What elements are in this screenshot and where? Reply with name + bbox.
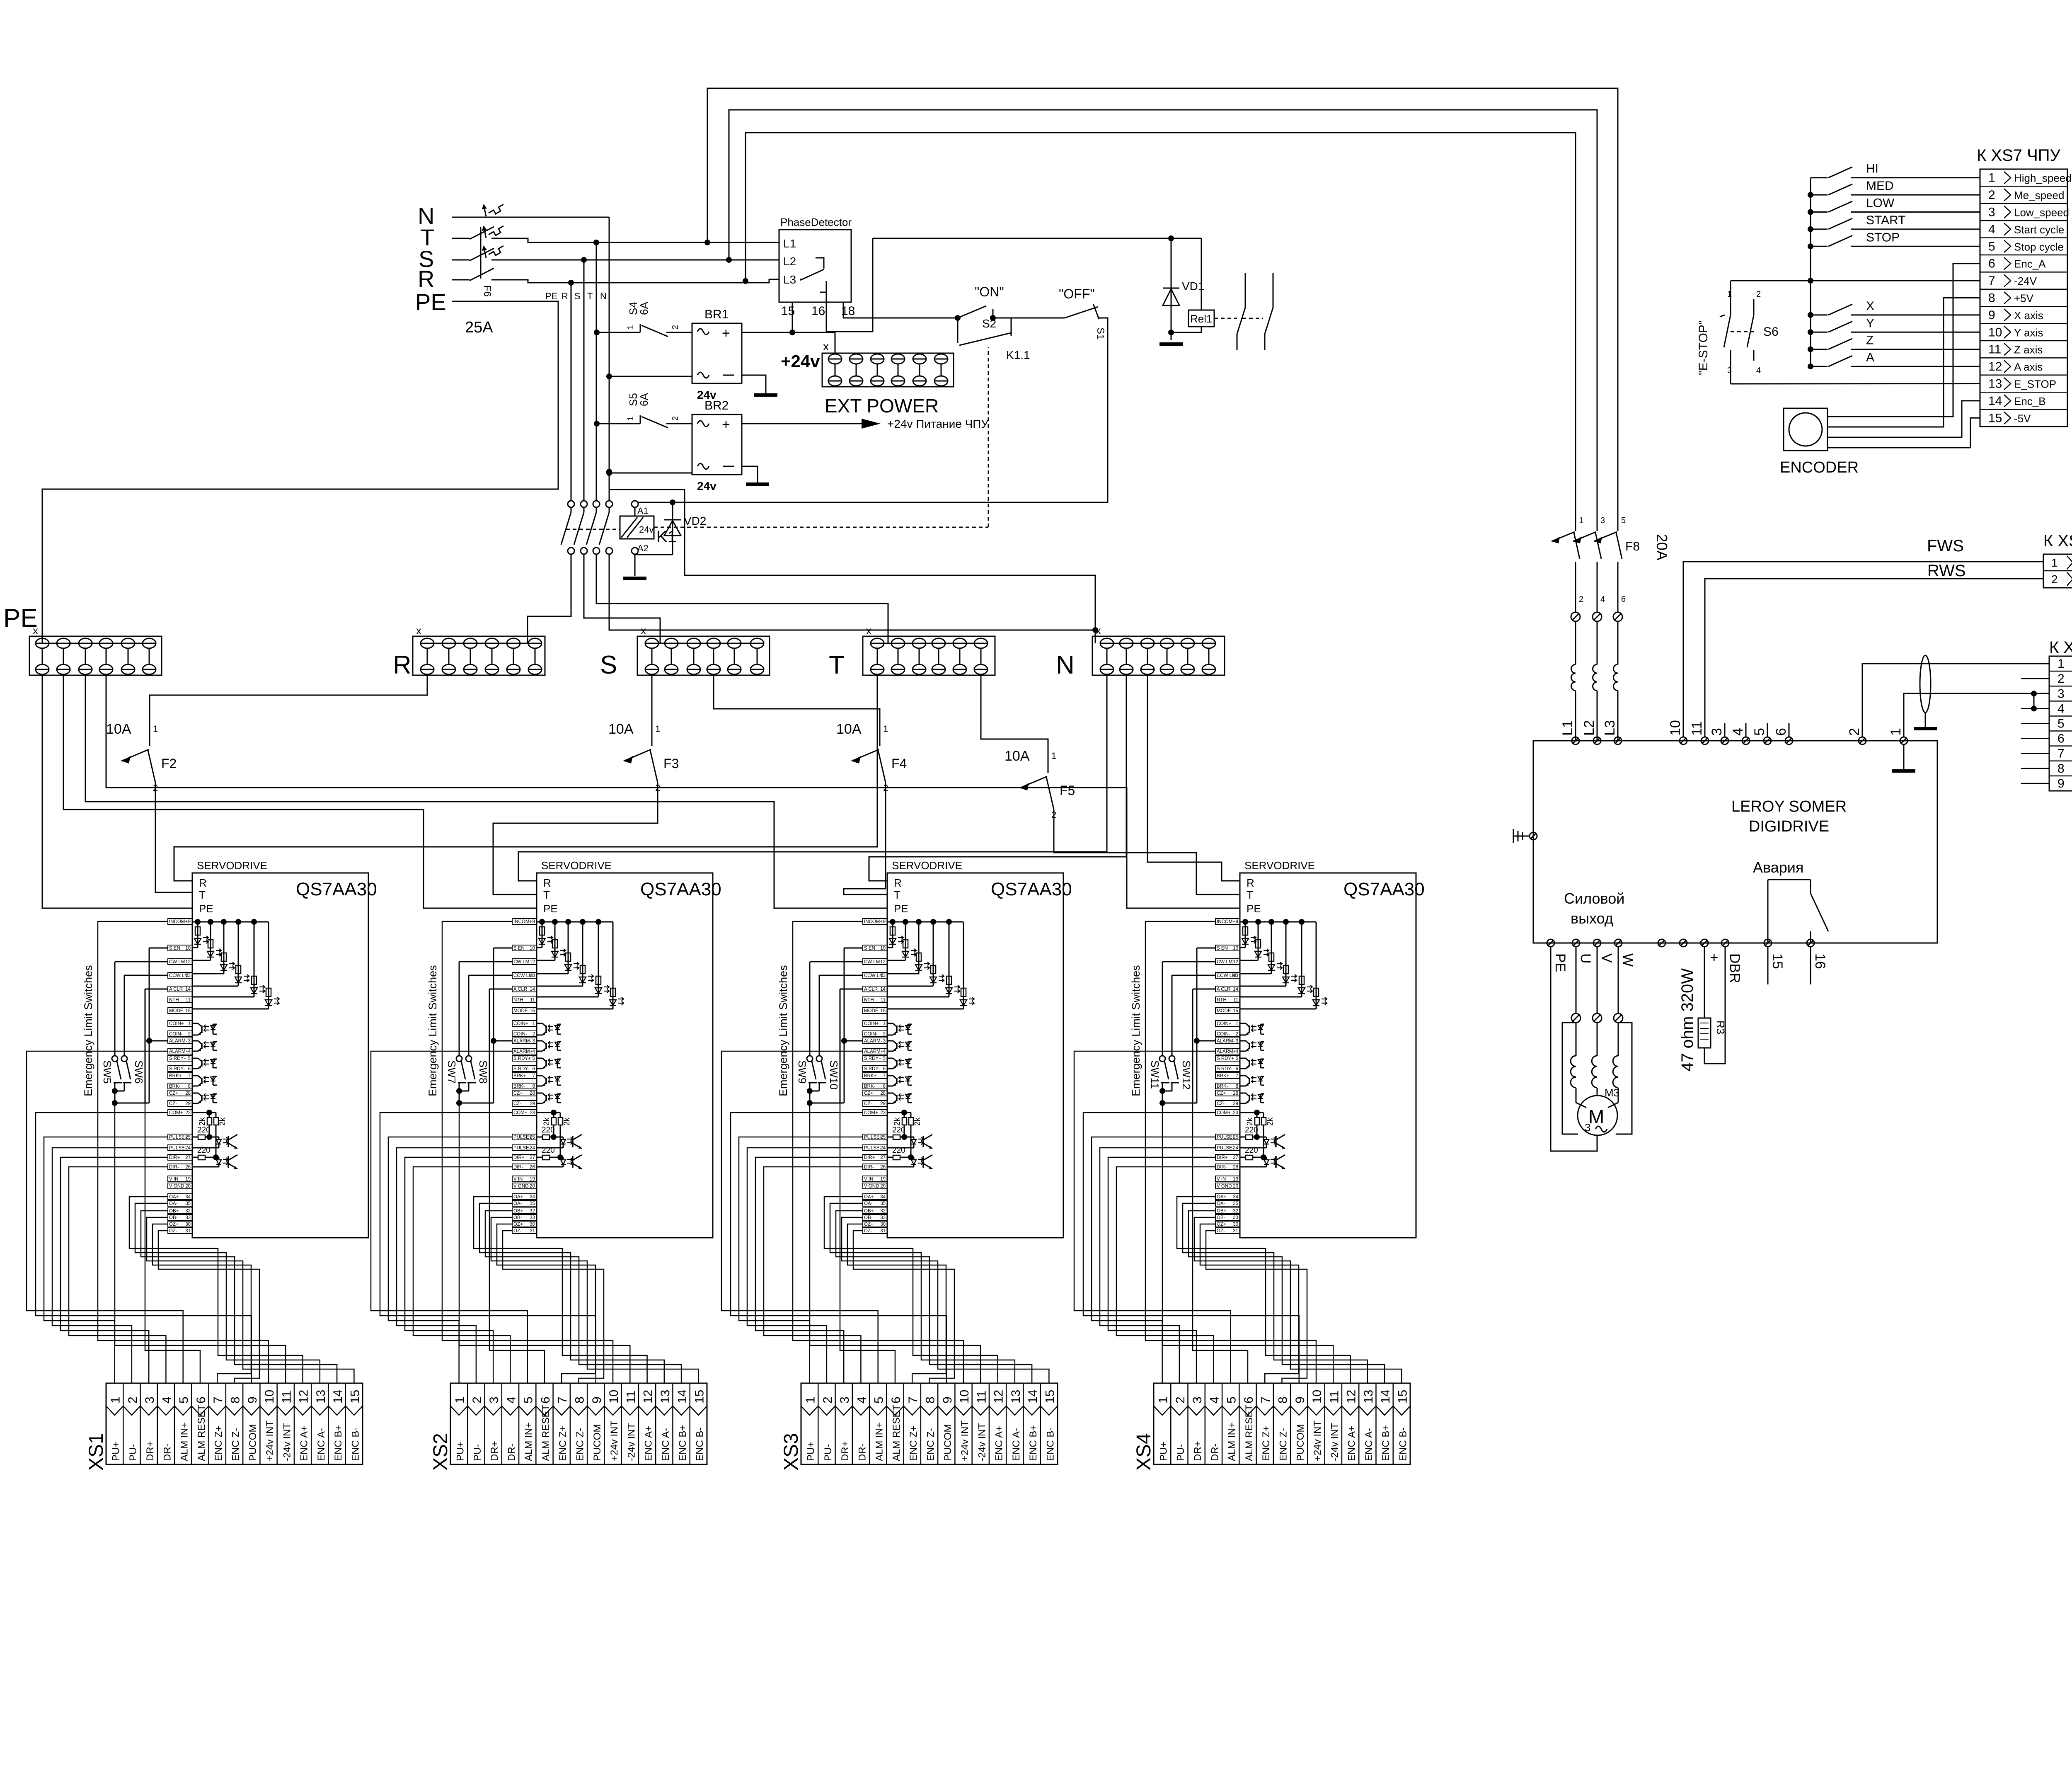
wire V to motor terminal — [1597, 947, 1598, 1013]
wire T strip to servodrive1 R — [174, 675, 877, 881]
block PhaseDetector — [779, 230, 851, 302]
svg-text:34: 34 — [530, 1195, 535, 1200]
svg-text:U: U — [1578, 953, 1593, 964]
svg-text:10A: 10A — [1005, 748, 1030, 764]
svg-text:COIN-: COIN- — [1217, 1032, 1230, 1037]
svg-text:15: 15 — [1043, 1390, 1057, 1404]
svg-text:220: 220 — [892, 1146, 905, 1155]
limit switch SW8 — [469, 975, 512, 976]
svg-text:COM+: COM+ — [169, 1110, 183, 1115]
svg-text:2: 2 — [126, 1396, 140, 1404]
servodrive U1 pulse dir interface — [192, 1110, 237, 1169]
svg-text:V GND: V GND — [1217, 1184, 1232, 1189]
svg-text:S RDY+: S RDY+ — [1217, 1056, 1234, 1061]
wire F3 to servodrive2 T — [493, 783, 658, 894]
svg-text:DIR-: DIR- — [864, 1165, 874, 1170]
svg-text:10: 10 — [1988, 325, 2002, 339]
svg-text:33: 33 — [1233, 1215, 1238, 1220]
svg-text:ENC A+: ENC A+ — [299, 1425, 310, 1461]
svg-text:S RDY+: S RDY+ — [513, 1056, 531, 1061]
drive bottom terminals — [1547, 939, 1828, 983]
svg-text:1: 1 — [1727, 290, 1732, 299]
svg-text:SW10: SW10 — [828, 1060, 840, 1090]
svg-text:27: 27 — [880, 1155, 886, 1160]
svg-text:2k: 2k — [563, 1117, 571, 1126]
svg-text:34: 34 — [185, 1195, 191, 1200]
svg-text:5: 5 — [1988, 240, 1995, 253]
svg-text:-24v INT: -24v INT — [281, 1423, 293, 1461]
svg-text:2k: 2k — [542, 1117, 551, 1126]
svg-text:PU+: PU+ — [455, 1442, 466, 1461]
servodrive U4 QS7AA30 block — [1240, 873, 1416, 1238]
svg-text:14: 14 — [331, 1390, 345, 1404]
svg-text:220: 220 — [892, 1126, 905, 1134]
svg-text:4: 4 — [1236, 1049, 1239, 1054]
svg-text:25: 25 — [185, 1135, 191, 1140]
svg-text:1: 1 — [533, 1021, 535, 1026]
wire control top rail — [873, 238, 1201, 239]
svg-text:CW LM: CW LM — [169, 960, 185, 965]
svg-text:10A: 10A — [106, 721, 131, 737]
svg-text:STOP: STOP — [1866, 230, 1900, 244]
svg-text:SERVODRIVE: SERVODRIVE — [197, 859, 267, 872]
svg-text:PE: PE — [1552, 953, 1568, 972]
svg-text:1: 1 — [804, 1396, 818, 1404]
svg-text:ENC Z+: ENC Z+ — [213, 1425, 224, 1461]
wire top rail L2 to F8 — [729, 110, 1597, 516]
wire fan servodrive to XS1 — [27, 921, 354, 1383]
limit switch SW11 — [1162, 961, 1215, 962]
svg-text:DR-: DR- — [1209, 1443, 1220, 1461]
svg-text:V IN: V IN — [513, 1177, 523, 1182]
svg-text:OB-: OB- — [1217, 1215, 1225, 1220]
svg-text:19: 19 — [185, 1177, 191, 1182]
svg-text:2k: 2k — [218, 1117, 227, 1126]
svg-text:10: 10 — [185, 946, 191, 951]
svg-text:BRK+: BRK+ — [864, 1074, 877, 1079]
switch bank bus — [1810, 178, 1811, 366]
wire R phase to PhaseDetector L3 — [491, 279, 779, 283]
svg-text:19: 19 — [1233, 1177, 1238, 1182]
svg-text:20: 20 — [530, 1184, 535, 1189]
servodrive U1 QS7AA30 block — [192, 873, 368, 1238]
svg-text:COIN+: COIN+ — [513, 1021, 528, 1026]
ground BR1 — [754, 393, 777, 397]
svg-text:15: 15 — [1988, 411, 2002, 425]
svg-text:2: 2 — [188, 1032, 191, 1037]
svg-text:10: 10 — [958, 1390, 971, 1404]
svg-text:7: 7 — [883, 1074, 886, 1079]
svg-text:"E-STOP": "E-STOP" — [1697, 320, 1710, 375]
svg-text:OB+: OB+ — [1217, 1209, 1227, 1214]
switch START — [1808, 226, 1813, 232]
contact K1.1 parallel — [957, 318, 959, 343]
svg-text:T: T — [829, 651, 845, 679]
svg-text:33: 33 — [530, 1215, 535, 1220]
svg-text:x: x — [823, 340, 829, 353]
svg-text:13: 13 — [658, 1390, 672, 1404]
svg-text:CW LM: CW LM — [864, 960, 880, 965]
connector XS3 — [780, 1383, 1058, 1471]
svg-text:+24v Питание ЧПУ: +24v Питание ЧПУ — [887, 417, 988, 430]
svg-text:7: 7 — [211, 1396, 225, 1404]
svg-text:"ON": "ON" — [975, 284, 1004, 299]
svg-text:W: W — [1620, 953, 1636, 967]
contactor K1 gang dashed — [566, 529, 620, 530]
svg-text:6: 6 — [1621, 595, 1626, 604]
svg-text:BRK+: BRK+ — [1217, 1074, 1230, 1079]
svg-text:15: 15 — [880, 1008, 886, 1013]
svg-text:DIR+: DIR+ — [864, 1155, 875, 1160]
svg-text:V IN: V IN — [864, 1177, 873, 1182]
svg-text:2k: 2k — [893, 1117, 902, 1126]
svg-text:31: 31 — [185, 1229, 191, 1234]
svg-text:Start cycle: Start cycle — [2014, 223, 2064, 236]
svg-text:28: 28 — [185, 1091, 191, 1096]
svg-text:Enc_A: Enc_A — [2014, 258, 2046, 270]
svg-text:ALM RESET: ALM RESET — [540, 1405, 552, 1461]
svg-text:5: 5 — [533, 1056, 535, 1061]
wire N phase — [452, 217, 609, 218]
svg-text:3: 3 — [1236, 1039, 1238, 1044]
svg-text:ENC A-: ENC A- — [1363, 1428, 1375, 1461]
svg-text:Me_speed: Me_speed — [2014, 189, 2064, 201]
wire U to motor terminal — [1576, 947, 1577, 1013]
wire pin16 to top rail — [826, 238, 873, 332]
wire S2 to S1 — [993, 318, 1065, 319]
svg-text:12: 12 — [1345, 1390, 1358, 1404]
servodrive U1 output optocouplers — [192, 1023, 217, 1103]
drive LEROY SOMER DIGIDRIVE block — [1533, 741, 1937, 943]
wire encoder 5V — [1828, 298, 1980, 427]
servodrive U2 terminal boxes — [512, 919, 537, 1234]
wire S bus to S strip — [584, 554, 660, 643]
wire S phase into breaker — [452, 259, 470, 261]
svg-text:6: 6 — [1773, 728, 1789, 736]
svg-text:Enc_B: Enc_B — [2014, 395, 2046, 407]
svg-text:6: 6 — [883, 1067, 886, 1071]
svg-text:INCOM+: INCOM+ — [864, 919, 883, 924]
svg-text:S: S — [600, 651, 617, 679]
wires windings to motor — [1576, 1088, 1577, 1103]
line reactor L3 — [1614, 664, 1618, 691]
svg-text:R: R — [199, 877, 207, 889]
svg-text:13: 13 — [314, 1390, 328, 1404]
svg-text:L2: L2 — [783, 255, 796, 268]
ground VD1 — [1159, 342, 1183, 346]
wire RWS to XS6 pin2 — [1705, 579, 2043, 737]
svg-text:5: 5 — [883, 1056, 886, 1061]
wire N bus to N strip — [609, 554, 1095, 630]
ground K1 coil — [623, 577, 646, 580]
svg-text:DR+: DR+ — [1192, 1441, 1203, 1461]
wire S5 to BR2 — [666, 423, 692, 424]
svg-text:31: 31 — [1233, 1229, 1238, 1234]
wire top rail L3 to F8 — [707, 88, 1618, 516]
svg-text:CZ+: CZ+ — [169, 1091, 178, 1096]
svg-text:S RDY+: S RDY+ — [169, 1056, 186, 1061]
svg-text:14: 14 — [1233, 987, 1238, 992]
svg-text:1: 1 — [1051, 751, 1056, 761]
wire PE strip t2 to servodrive2 PE — [63, 675, 537, 908]
svg-text:COIN+: COIN+ — [1217, 1021, 1232, 1026]
switch S4 6A — [640, 324, 641, 332]
svg-text:32: 32 — [530, 1209, 535, 1214]
svg-text:S EN: S EN — [169, 946, 180, 951]
motor winding U — [1576, 1023, 1577, 1056]
svg-text:R: R — [1247, 877, 1254, 889]
wire plus to R3 — [1704, 947, 1705, 1018]
svg-text:220: 220 — [1245, 1146, 1258, 1155]
svg-text:+: + — [722, 417, 730, 432]
svg-text:3: 3 — [533, 1039, 535, 1044]
svg-text:5: 5 — [2057, 717, 2065, 731]
svg-text:1: 1 — [626, 416, 635, 421]
svg-text:Y: Y — [1866, 316, 1874, 330]
relay Rel1 — [1201, 238, 1202, 310]
servodrive U4 input ladder resistors and LEDs — [1240, 919, 1327, 1009]
svg-text:выход: выход — [1571, 910, 1613, 927]
svg-text:MED: MED — [1866, 179, 1894, 193]
wire VD2 bottom to A2 — [635, 554, 673, 555]
svg-text:6A: 6A — [638, 302, 650, 315]
svg-text:S EN: S EN — [513, 946, 525, 951]
svg-text:6: 6 — [1988, 257, 1995, 271]
svg-text:LEROY SOMER: LEROY SOMER — [1731, 798, 1847, 815]
breaker F8 20A — [1552, 516, 1670, 612]
XS8 ground links rows 3-5 — [2031, 691, 2037, 696]
terminal strip N — [1092, 636, 1225, 675]
svg-text:CZ-: CZ- — [1217, 1101, 1225, 1106]
svg-text:31: 31 — [880, 1229, 886, 1234]
svg-text:MODE: MODE — [864, 1008, 879, 1013]
svg-text:+24v: +24v — [781, 351, 820, 371]
svg-text:ALM IN+: ALM IN+ — [1227, 1422, 1238, 1461]
svg-text:29: 29 — [880, 1101, 886, 1106]
svg-text:DR-: DR- — [506, 1443, 517, 1461]
svg-text:QS7AA30: QS7AA30 — [1343, 879, 1425, 899]
svg-text:-24v INT: -24v INT — [1329, 1423, 1340, 1461]
svg-text:3: 3 — [1988, 206, 1995, 219]
svg-text:32: 32 — [185, 1209, 191, 1214]
switch S4 feed wire — [597, 332, 640, 333]
diode VD1 — [1171, 238, 1172, 340]
switch HI — [1811, 177, 1828, 178]
svg-text:OA+: OA+ — [513, 1195, 523, 1200]
svg-text:ALM RESET: ALM RESET — [1244, 1405, 1255, 1461]
svg-text:L3: L3 — [783, 273, 796, 286]
svg-text:S EN: S EN — [864, 946, 875, 951]
svg-text:CW LM: CW LM — [513, 960, 529, 965]
svg-text:ENC A-: ENC A- — [316, 1428, 327, 1461]
svg-text:OB+: OB+ — [169, 1209, 179, 1214]
terminal strip PE — [29, 636, 162, 675]
motor winding V — [1597, 1023, 1598, 1056]
svg-text:4: 4 — [1988, 223, 1995, 236]
svg-text:BRK-: BRK- — [864, 1084, 876, 1089]
svg-text:2: 2 — [2057, 672, 2065, 686]
wire BR1 plus output — [742, 332, 835, 333]
svg-text:E_STOP: E_STOP — [2014, 378, 2056, 390]
screw terminals after F8 — [1571, 612, 1580, 621]
svg-text:PULSE+: PULSE+ — [1217, 1135, 1235, 1140]
svg-text:V GND: V GND — [169, 1184, 184, 1189]
svg-text:7: 7 — [1259, 1396, 1273, 1404]
svg-text:2: 2 — [1236, 1032, 1238, 1037]
svg-text:BRK-: BRK- — [169, 1084, 181, 1089]
svg-text:8: 8 — [573, 1396, 587, 1404]
svg-text:Силовой: Силовой — [1564, 890, 1624, 907]
svg-text:XS4: XS4 — [1133, 1433, 1155, 1471]
svg-text:13: 13 — [1988, 377, 2002, 391]
svg-text:T: T — [894, 889, 900, 901]
svg-text:ALM RESET: ALM RESET — [196, 1405, 207, 1461]
resistor R3 47 ohm 320W — [1698, 1018, 1711, 1048]
svg-text:11: 11 — [624, 1391, 638, 1404]
servodrive U2 pulse dir interface — [537, 1110, 582, 1169]
rectifier BR2 — [692, 415, 742, 475]
svg-text:19: 19 — [880, 1177, 886, 1182]
svg-text:X: X — [1866, 299, 1874, 313]
svg-text:12: 12 — [1233, 960, 1238, 965]
relay contact 1 — [1245, 273, 1246, 308]
svg-text:25A: 25A — [465, 319, 493, 336]
svg-text:F3: F3 — [663, 756, 679, 771]
junction T top rail — [704, 240, 710, 245]
svg-text:+: + — [722, 325, 730, 341]
svg-text:15: 15 — [348, 1390, 362, 1404]
svg-text:CZ-: CZ- — [864, 1101, 872, 1106]
svg-text:4: 4 — [1208, 1396, 1221, 1404]
wire reactor to drive input — [1617, 691, 1619, 741]
svg-text:27: 27 — [185, 1155, 191, 1160]
svg-text:S RDY-: S RDY- — [169, 1067, 185, 1071]
svg-text:COM+: COM+ — [513, 1110, 528, 1115]
wire T phase into breaker — [452, 238, 470, 239]
svg-text:5: 5 — [1225, 1396, 1239, 1404]
limit switch SW9 — [810, 961, 863, 962]
svg-text:7: 7 — [188, 1074, 191, 1079]
svg-text:6A: 6A — [638, 393, 650, 406]
svg-text:MODE: MODE — [1217, 1008, 1231, 1013]
svg-text:OZ-: OZ- — [513, 1229, 522, 1234]
svg-text:2k: 2k — [1246, 1117, 1254, 1126]
svg-text:PULSE-: PULSE- — [169, 1146, 186, 1151]
wire fan servodrive to XS3 — [721, 921, 1049, 1383]
svg-text:13: 13 — [1362, 1390, 1375, 1404]
svg-text:COM+: COM+ — [1217, 1110, 1231, 1115]
svg-text:+5V: +5V — [2014, 292, 2034, 305]
svg-text:25: 25 — [530, 1135, 535, 1140]
svg-text:4: 4 — [188, 1049, 191, 1054]
svg-text:2: 2 — [470, 1396, 484, 1404]
svg-text:MODE: MODE — [513, 1008, 528, 1013]
svg-text:29: 29 — [185, 1101, 191, 1106]
junction T bus — [593, 240, 599, 245]
bus S vertical — [583, 260, 585, 501]
svg-text:13: 13 — [880, 973, 886, 978]
svg-text:S RDY-: S RDY- — [1217, 1067, 1232, 1071]
svg-text:К XS6 ЧПУ: К XS6 ЧПУ — [2043, 532, 2072, 550]
svg-text:14: 14 — [530, 987, 535, 992]
relay Rel1 dashed link — [1214, 318, 1237, 319]
svg-text:6: 6 — [2057, 732, 2065, 746]
svg-text:PULSE+: PULSE+ — [169, 1135, 188, 1140]
svg-text:Z axis: Z axis — [2014, 344, 2043, 356]
svg-text:7: 7 — [556, 1396, 569, 1404]
svg-text:1: 1 — [1157, 1396, 1170, 1404]
svg-text:A: A — [1866, 351, 1874, 364]
svg-text:ENC B+: ENC B+ — [1028, 1425, 1039, 1461]
svg-text:2: 2 — [1579, 595, 1583, 604]
svg-text:Low_speed: Low_speed — [2014, 206, 2069, 219]
wire PE strip to servodrive1 PE — [42, 675, 192, 908]
motor terminal screws — [1571, 1013, 1581, 1023]
switch Y axis — [1808, 329, 1813, 335]
svg-text:27: 27 — [530, 1155, 535, 1160]
svg-text:4: 4 — [504, 1396, 518, 1404]
svg-text:8: 8 — [1236, 1084, 1238, 1089]
svg-text:14: 14 — [675, 1390, 689, 1404]
svg-text:OA+: OA+ — [1217, 1195, 1227, 1200]
svg-text:Авария: Авария — [1753, 859, 1803, 876]
servodrive U3 pulse dir interface — [887, 1110, 932, 1169]
wire fan servodrive to XS2 — [371, 921, 698, 1383]
svg-text:9: 9 — [1988, 308, 1995, 322]
svg-text:29: 29 — [530, 1101, 535, 1106]
svg-text:ALARM+: ALARM+ — [1217, 1049, 1236, 1054]
svg-text:26: 26 — [880, 1165, 886, 1170]
svg-text:PU+: PU+ — [806, 1442, 817, 1461]
svg-text:ENCODER: ENCODER — [1780, 459, 1859, 476]
wire BR2 AC input lower from N bus — [609, 473, 692, 474]
limit switch common net U1 — [115, 1103, 149, 1104]
svg-text:47 ohm 320W: 47 ohm 320W — [1678, 968, 1697, 1071]
svg-text:A CLR: A CLR — [1217, 987, 1230, 992]
svg-text:10: 10 — [1233, 946, 1238, 951]
svg-text:R: R — [894, 877, 902, 889]
svg-text:29: 29 — [1233, 1101, 1238, 1106]
svg-text:SERVODRIVE: SERVODRIVE — [541, 859, 612, 872]
svg-text:V GND: V GND — [513, 1184, 528, 1189]
svg-text:2k: 2k — [1266, 1117, 1275, 1126]
svg-text:14: 14 — [1988, 394, 2002, 408]
wire S phase to PhaseDetector L2 — [491, 259, 779, 261]
svg-text:6: 6 — [194, 1396, 208, 1404]
svg-text:Rel1: Rel1 — [1190, 313, 1212, 325]
svg-text:2k: 2k — [198, 1117, 207, 1126]
svg-text:1: 1 — [883, 1021, 886, 1026]
svg-text:PE: PE — [199, 902, 213, 915]
svg-text:INCOM+: INCOM+ — [169, 919, 188, 924]
svg-text:ALARM-: ALARM- — [864, 1039, 882, 1044]
svg-text:5: 5 — [872, 1396, 886, 1404]
svg-text:9: 9 — [1236, 919, 1238, 924]
svg-text:V GND: V GND — [864, 1184, 879, 1189]
svg-text:OZ-: OZ- — [169, 1229, 177, 1234]
svg-text:35: 35 — [185, 1201, 191, 1206]
svg-text:9: 9 — [883, 919, 886, 924]
wire fan servodrive to XS4 — [1074, 921, 1402, 1383]
svg-text:3: 3 — [487, 1396, 501, 1404]
limit switch SW6 — [124, 975, 168, 976]
wire W to motor terminal — [1618, 947, 1619, 1013]
svg-text:1: 1 — [655, 724, 660, 734]
svg-text:35: 35 — [880, 1201, 886, 1206]
svg-text:T: T — [543, 889, 550, 901]
svg-text:1: 1 — [626, 325, 635, 330]
svg-text:20: 20 — [1233, 1184, 1238, 1189]
